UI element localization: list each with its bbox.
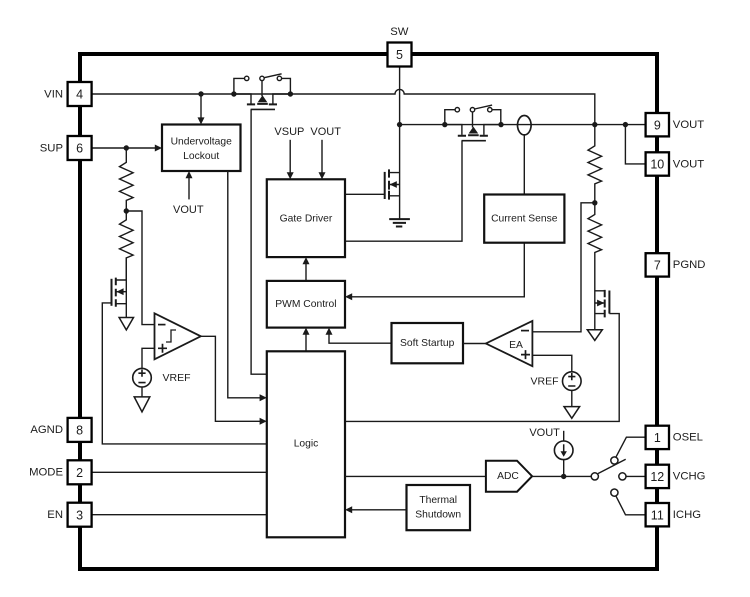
svg-text:4: 4 [76,88,83,102]
svg-text:VCHG: VCHG [673,471,706,483]
wire comparator output to Logic [201,336,267,425]
svg-text:PGND: PGND [673,259,706,271]
pin 2 MODE [68,460,92,484]
node SUP divider mid [124,208,129,213]
node VIN junction at UVLO [198,91,203,96]
wire pin10 branch [625,125,645,164]
svg-text:Thermal: Thermal [419,495,457,506]
block Thermal Shutdown [407,485,471,530]
wire Q3 gate to Gate Driver [345,141,462,242]
resistor R3 feedback divider upper [588,125,602,203]
node SW/VOUT junction [397,122,402,127]
current probe ellipse [518,116,532,135]
svg-text:Gate Driver: Gate Driver [280,214,333,225]
wire VREF right to ground [571,390,573,406]
svg-text:VOUT: VOUT [673,158,704,170]
source VREF left [133,368,152,387]
svg-text:10: 10 [650,158,664,172]
wire SUP lead [92,147,157,149]
svg-text:EA: EA [509,340,523,351]
transistor Q1 left divider NMOS [112,258,127,318]
svg-text:OSEL: OSEL [673,432,703,444]
wire Q1 gate to Logic [102,303,266,444]
svg-text:Undervoltage: Undervoltage [171,137,233,148]
svg-text:3: 3 [76,508,83,522]
resistor R2 SUP divider lower [120,211,134,280]
switch contact ICHG [611,489,646,515]
op-amp U2 error amplifier EA [486,321,533,366]
wire VIN to UVLO arrow [198,94,205,125]
svg-text:Current Sense: Current Sense [491,214,558,225]
wire Current Sense to PWM Control [345,243,524,301]
svg-text:PWM Control: PWM Control [275,299,336,310]
switch contact OSEL [611,437,646,464]
svg-text:12: 12 [650,470,664,484]
pin 9 VOUT [646,113,669,136]
svg-text:ADC: ADC [497,471,519,482]
svg-text:11: 11 [651,508,664,522]
wire PWM to Gate Driver arrow [303,257,310,281]
switch contact VCHG [619,473,646,480]
wire EA to Soft Startup [463,343,486,345]
node ADC output junction [561,474,566,479]
ground below Q1 [119,318,133,330]
svg-text:VIN: VIN [44,88,63,100]
ground below VREF left [134,397,150,412]
svg-text:9: 9 [654,118,661,132]
svg-text:ICHG: ICHG [673,509,701,521]
wire divider mid to comparator minus [126,211,154,325]
node feedback mid [592,200,597,205]
wire Soft Startup to PWM arrow [326,328,392,344]
pin 12 VCHG [646,465,669,488]
wire VREF to ground [141,387,143,397]
transistor Q2 input PMOS switch pair [231,74,293,110]
block UVLO [162,125,241,172]
svg-text:VOUT: VOUT [529,427,560,439]
svg-text:VSUP: VSUP [274,126,304,138]
svg-text:AGND: AGND [30,424,63,436]
wire UVLO bottom stub [227,171,229,180]
pin 7 PGND [646,253,669,276]
block PWM Control [267,281,345,328]
ground below Q4 [389,219,410,226]
svg-text:SUP: SUP [40,142,63,154]
op-amp U1 hysteresis comparator [155,313,201,359]
wire VOUT rail y=125 [400,124,646,126]
chip outer border [80,54,657,569]
svg-text:VREF: VREF [163,372,191,384]
node pin10 junction [623,122,628,127]
wire Logic to PWM arrow [303,328,310,352]
wire MODE lead [92,471,267,473]
wire EA plus to VREF right [532,355,571,372]
svg-text:8: 8 [76,424,83,438]
svg-text:SW: SW [390,26,409,38]
svg-text:Logic: Logic [294,438,319,449]
wire ADC output [532,475,591,477]
resistor R4 feedback divider lower [588,203,602,258]
pin 6 SUP [68,136,92,160]
wire Thermal Shutdown to Logic arrow [345,506,407,513]
svg-text:VOUT: VOUT [673,119,704,131]
svg-text:VOUT: VOUT [310,126,341,138]
pin 1 OSEL [646,426,669,449]
transistor Q5 discharge NMOS [595,258,610,330]
pin 5 SW [388,43,412,67]
wire Q5 gate to Logic [345,314,619,422]
wire VOUT up-arrow into UVLO bottom [186,171,193,199]
pin 8 AGND [68,418,92,442]
source VREF right [563,372,582,391]
transistor Q3 output PMOS switch pair [442,105,504,141]
wire Logic to ADC [345,475,486,477]
block Soft Startup [392,323,464,363]
switch selector common [591,459,626,480]
wire UVLO output to Logic [228,171,267,401]
wire probe to Current Sense [523,135,525,195]
wire comparator plus to VREF [142,348,155,368]
block Current Sense [484,195,564,243]
node VIN to VOUT rail junction [592,122,597,127]
pin 10 VOUT [646,152,669,175]
node SUP divider top [124,145,129,150]
source current source VOUT [554,431,573,477]
svg-text:EN: EN [47,509,63,521]
transistor Q4 low-side NMOS [345,169,400,199]
svg-text:5: 5 [396,48,403,62]
wire EN lead [92,514,267,516]
wire VSUP arrow into Gate Driver [287,140,294,180]
svg-text:Lockout: Lockout [183,151,219,162]
svg-text:7: 7 [654,259,661,273]
block Logic [267,351,345,537]
block Gate Driver [267,179,345,257]
block ADC [486,461,532,492]
pin 11 ICHG [646,503,669,526]
svg-text:VOUT: VOUT [173,204,204,216]
wire VOUT arrow into Gate Driver [319,140,326,180]
ground below Q5 [587,330,602,341]
svg-text:Shutdown: Shutdown [415,509,461,520]
pin 3 EN [68,503,92,527]
svg-text:MODE: MODE [29,467,63,479]
wire Q2 gate to Logic [251,109,267,374]
arrowhead SUP into UVLO [155,145,162,152]
wire SW net vertical [399,67,401,220]
wire VIN rail y=94 with hop over SW net [92,89,595,124]
svg-text:2: 2 [76,466,83,480]
pin 4 VIN [68,82,92,106]
svg-text:6: 6 [76,142,83,156]
svg-text:1: 1 [654,431,661,445]
resistor R1 SUP divider upper [120,148,134,211]
ground below VREF right [564,407,580,419]
svg-text:VREF: VREF [530,375,558,387]
wire feedback to EA minus [532,203,594,332]
svg-text:Soft Startup: Soft Startup [400,338,455,349]
